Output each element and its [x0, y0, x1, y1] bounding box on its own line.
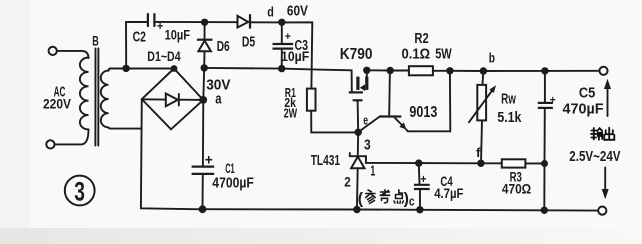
svg-text:2: 2 [344, 174, 351, 190]
svg-text:a: a [215, 91, 222, 108]
svg-text:e: e [363, 113, 368, 127]
svg-text:B: B [92, 32, 99, 48]
svg-text:C5: C5 [579, 85, 595, 101]
svg-text:Rw: Rw [501, 90, 516, 107]
svg-text:470µF: 470µF [563, 102, 604, 118]
svg-text:C2: C2 [133, 29, 146, 45]
svg-text:3: 3 [364, 137, 371, 154]
svg-text:+: + [157, 21, 163, 33]
svg-text:f: f [476, 145, 481, 160]
svg-text:60V: 60V [287, 3, 308, 20]
svg-text:D1~D4: D1~D4 [147, 49, 181, 64]
svg-text:4700µF: 4700µF [212, 176, 254, 192]
svg-text:1: 1 [370, 163, 375, 180]
svg-text:10µF: 10µF [165, 27, 190, 42]
svg-text:5.1k: 5.1k [497, 109, 522, 126]
svg-text:4.7µF: 4.7µF [434, 186, 463, 201]
svg-text:470Ω: 470Ω [502, 181, 531, 197]
svg-text:(: ( [358, 191, 364, 208]
svg-text:+: + [420, 174, 426, 186]
svg-text:220V: 220V [43, 96, 72, 112]
svg-text:d: d [267, 3, 274, 19]
svg-text:+: + [205, 152, 213, 168]
svg-text:D5: D5 [242, 34, 255, 50]
svg-text:10µF: 10µF [281, 49, 309, 64]
svg-text:R2: R2 [414, 30, 428, 47]
svg-text:D6: D6 [217, 39, 230, 55]
svg-text:9013: 9013 [409, 104, 437, 121]
svg-text:3: 3 [74, 177, 85, 207]
svg-text:c: c [409, 194, 415, 209]
svg-text:TL431: TL431 [311, 152, 340, 169]
svg-text:2W: 2W [284, 106, 298, 121]
svg-text:+: + [550, 94, 556, 106]
svg-text:2.5V~24V: 2.5V~24V [569, 149, 620, 165]
svg-text:b: b [489, 51, 495, 66]
svg-text:0.1Ω: 0.1Ω [402, 46, 431, 63]
svg-text:C1: C1 [225, 161, 235, 176]
svg-text:K790: K790 [340, 46, 373, 63]
svg-text:5W: 5W [435, 46, 452, 63]
svg-text:+: + [285, 31, 291, 43]
